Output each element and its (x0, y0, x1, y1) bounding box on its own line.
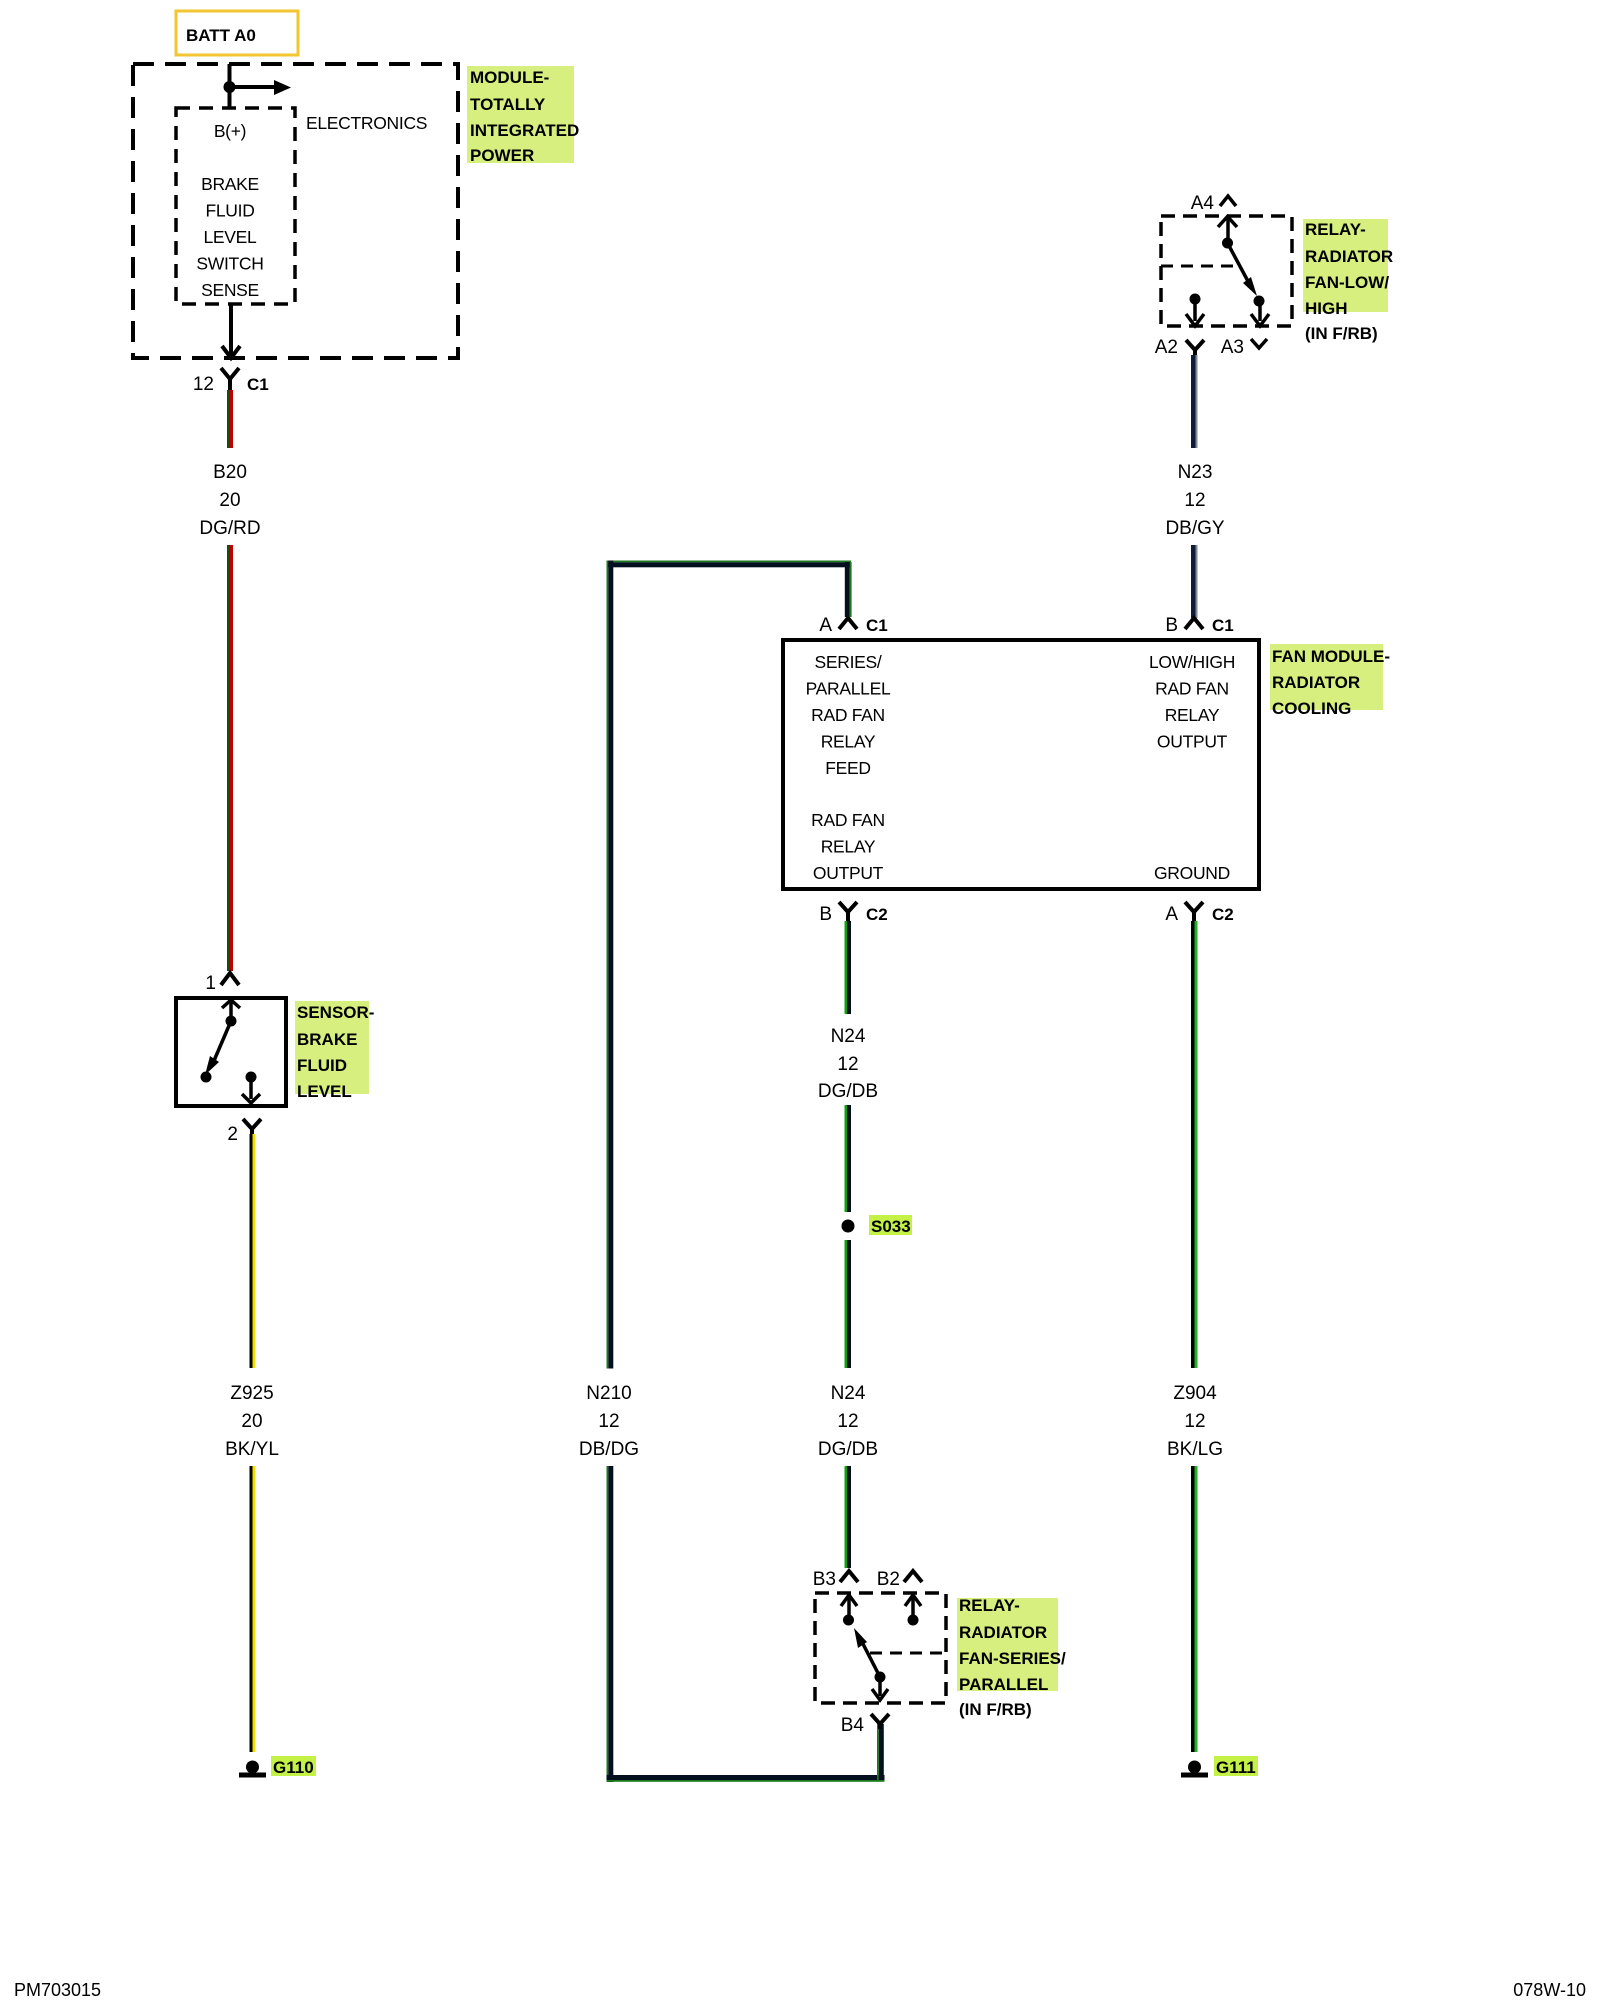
highlight label FAN MODULE-RADIATOR COOLING (1270, 644, 1390, 718)
wire N24 DG/DB segment 4 to relay pin B3 (845, 1466, 852, 1568)
svg-text:12: 12 (837, 1054, 858, 1075)
brake fluid level switch sense: inner dashed sub-box (176, 108, 295, 304)
wire N210 DB/DG stub down to fan module pin A C1 (845, 562, 852, 617)
svg-text:DB/GY: DB/GY (1165, 518, 1224, 539)
svg-text:OUTPUT: OUTPUT (813, 863, 884, 883)
svg-text:SENSE: SENSE (201, 280, 259, 300)
sensor switch: pivot dot (226, 1016, 237, 1027)
fan module right pin text LOW/HIGH RAD FAN RELAY OUTPUT (1149, 652, 1235, 752)
svg-text:BK/LG: BK/LG (1167, 1439, 1223, 1460)
wire label Z925 20 BK/YL (225, 1383, 279, 1460)
svg-text:N24: N24 (831, 1026, 866, 1047)
svg-text:A: A (1165, 904, 1178, 925)
svg-text:A4: A4 (1191, 193, 1215, 214)
svg-text:N210: N210 (586, 1383, 631, 1404)
svg-text:A3: A3 (1221, 337, 1244, 358)
svg-text:B3: B3 (813, 1569, 836, 1590)
wire N210 DB/DG left vertical segment 1 (607, 561, 614, 1369)
wire Z904 BK/LG segment 2 (1191, 1466, 1198, 1752)
wire N24 DG/DB segment 1 from fan module B C2 (845, 921, 852, 1014)
splice S033 dot (842, 1220, 855, 1233)
svg-text:Z925: Z925 (230, 1383, 273, 1404)
battery feed callout box BATT A0 (176, 11, 298, 55)
relay-radiator fan-series/parallel: pin B3 connector (male chevron) (813, 1569, 858, 1590)
svg-text:(IN F/RB): (IN F/RB) (959, 1700, 1032, 1719)
wire Z925 BK/YL segment 1 (250, 1134, 256, 1368)
svg-text:LEVEL: LEVEL (297, 1082, 352, 1101)
wire N24 DG/DB segment 3 (845, 1240, 852, 1368)
svg-text:20: 20 (219, 490, 240, 511)
svg-text:B(+): B(+) (214, 121, 246, 141)
ground label G110 (271, 1756, 316, 1777)
svg-text:N24: N24 (831, 1383, 866, 1404)
svg-text:TOTALLY: TOTALLY (470, 95, 546, 114)
svg-text:DG/DB: DG/DB (818, 1081, 878, 1102)
TIPM output wire with arrow to connector C1 (222, 304, 240, 358)
svg-text:B2: B2 (877, 1569, 900, 1590)
fan module left pin text RAD FAN RELAY OUTPUT (811, 810, 885, 883)
svg-text:C2: C2 (1212, 905, 1234, 924)
svg-text:OUTPUT: OUTPUT (1157, 732, 1228, 752)
svg-text:12: 12 (837, 1411, 858, 1432)
svg-text:LEVEL: LEVEL (204, 227, 258, 247)
highlight label RELAY-RADIATOR FAN-SERIES/PARALLEL (957, 1596, 1066, 1694)
relay common pivot dot (1222, 238, 1233, 249)
sensor switch: right throw contact dot (pin 2 side) (246, 1072, 257, 1083)
arrow to other circuits inside TIPM (230, 80, 292, 95)
wire Z925 BK/YL segment 2 (250, 1466, 256, 1752)
relay-radiator fan-low/high: pin A4 (male chevron) (1191, 193, 1236, 214)
svg-text:A2: A2 (1155, 337, 1178, 358)
relay terminal arrow to A2 (1186, 299, 1204, 326)
svg-text:FAN-SERIES/: FAN-SERIES/ (959, 1649, 1066, 1668)
fan module-radiator cooling box (783, 640, 1259, 889)
svg-text:RADIATOR: RADIATOR (1272, 673, 1360, 692)
svg-text:DG/RD: DG/RD (199, 518, 260, 539)
wire N210 stub up to relay pin B4 (877, 1724, 884, 1780)
wire label N210 12 DB/DG (579, 1383, 639, 1460)
svg-text:FEED: FEED (825, 758, 870, 778)
svg-text:RELAY-: RELAY- (959, 1596, 1020, 1615)
upper wire label N24 12 DG/DB (818, 1026, 878, 1102)
svg-text:GROUND: GROUND (1154, 863, 1230, 883)
svg-text:C2: C2 (866, 905, 888, 924)
pin A2 connector (female Y) (1155, 337, 1204, 358)
svg-text:BRAKE: BRAKE (297, 1030, 357, 1049)
highlight label RELAY-RADIATOR FAN-LOW/HIGH (1303, 219, 1393, 318)
wire label N23 12 DB/GY (1165, 462, 1224, 539)
wire N23 DB/GY segment 1 (1191, 355, 1198, 448)
relay common pivot dot (B3 side) (843, 1615, 854, 1626)
relay-radiator fan-low/high dashed box (1161, 216, 1292, 326)
svg-text:B4: B4 (841, 1715, 865, 1736)
svg-text:COOLING: COOLING (1272, 699, 1351, 718)
wire N23 DB/GY segment 2 (1191, 545, 1198, 618)
svg-text:SWITCH: SWITCH (196, 254, 263, 274)
relay terminal dot A2 (1190, 294, 1201, 305)
connector C1 pin 12 (female Y) (193, 368, 269, 395)
wire label Z904 12 BK/LG (1167, 1383, 1223, 1460)
fan module left pin text SERIES/PARALLEL RAD FAN RELAY FEED (806, 652, 891, 778)
module-totally integrated power: outer dashed box (133, 64, 458, 358)
highlight label SENSOR-BRAKE FLUID LEVEL (295, 1001, 374, 1101)
svg-text:FAN-LOW/: FAN-LOW/ (1305, 273, 1389, 292)
svg-text:LOW/HIGH: LOW/HIGH (1149, 652, 1235, 672)
svg-text:Z904: Z904 (1173, 1383, 1217, 1404)
relay terminal arrow from B3 (841, 1595, 857, 1620)
svg-text:N23: N23 (1178, 462, 1213, 483)
svg-text:FAN MODULE-: FAN MODULE- (1272, 647, 1390, 666)
connector pin 2 (female Y) (227, 1119, 261, 1145)
svg-text:PM703015: PM703015 (14, 1980, 101, 2000)
svg-text:RELAY: RELAY (821, 837, 876, 857)
wire B20 DG/RD segment 2 (227, 545, 233, 971)
svg-text:B: B (819, 904, 832, 925)
wire N210 DB/DG left vertical segment 2 (607, 1466, 614, 1782)
svg-text:POWER: POWER (470, 146, 534, 165)
splice label S033 (869, 1215, 912, 1236)
pin A3 connector (male chevron down) (1221, 337, 1267, 358)
sensor switch: movable arm with arrowhead (205, 1021, 231, 1075)
wire B20 DG/RD segment 1 (227, 390, 233, 448)
svg-text:RAD FAN: RAD FAN (811, 705, 885, 725)
wire Z904 BK/LG segment 1 from fan module A C2 (1191, 921, 1198, 1368)
svg-text:RADIATOR: RADIATOR (959, 1623, 1047, 1642)
connector C1 pin A (male) at fan module (819, 615, 887, 636)
svg-text:S033: S033 (871, 1217, 911, 1236)
svg-text:2: 2 (227, 1124, 238, 1145)
svg-text:FLUID: FLUID (297, 1056, 347, 1075)
ground G110 symbol (239, 1761, 266, 1778)
svg-text:B: B (1165, 615, 1178, 636)
svg-text:20: 20 (241, 1411, 262, 1432)
svg-text:SENSOR-: SENSOR- (297, 1003, 374, 1022)
svg-text:RELAY: RELAY (821, 732, 876, 752)
svg-text:DG/DB: DG/DB (818, 1439, 878, 1460)
relay terminal arrow to B4 (872, 1677, 888, 1700)
svg-text:G111: G111 (1216, 1758, 1256, 1777)
svg-text:BK/YL: BK/YL (225, 1439, 279, 1460)
relay movable contact arm with arrowhead (1228, 243, 1258, 296)
svg-text:C1: C1 (866, 616, 888, 635)
svg-text:PARALLEL: PARALLEL (806, 679, 891, 699)
svg-text:BRAKE: BRAKE (201, 174, 259, 194)
ground G111 symbol (1181, 1761, 1208, 1778)
svg-text:12: 12 (598, 1411, 619, 1432)
lower wire label N24 12 DG/DB (818, 1383, 878, 1460)
svg-text:INTEGRATED: INTEGRATED (470, 121, 579, 140)
svg-text:RADIATOR: RADIATOR (1305, 247, 1393, 266)
ground label G111 (1214, 1756, 1258, 1777)
svg-text:MODULE-: MODULE- (470, 68, 549, 87)
svg-text:A: A (819, 615, 832, 636)
wire N210 DB/DG bottom horizontal segment to relay pin B4 (607, 1775, 885, 1782)
relay coil terminal arrow to A4 (1218, 217, 1237, 243)
sensor-brake fluid level box (176, 998, 286, 1106)
svg-text:FLUID: FLUID (205, 201, 254, 221)
pin B2 connector (male chevron) (877, 1569, 922, 1590)
relay terminal arrow from B2 (905, 1595, 921, 1620)
svg-text:12: 12 (1184, 1411, 1205, 1432)
svg-text:RAD FAN: RAD FAN (1155, 679, 1229, 699)
wire N24 DG/DB segment 2 (845, 1105, 852, 1212)
svg-text:078W-10: 078W-10 (1513, 1980, 1586, 2000)
relay-radiator fan-series/parallel dashed box (815, 1593, 946, 1703)
connector pin 1 (male chevron) of brake fluid level sensor (205, 973, 239, 994)
label BRAKE FLUID LEVEL SWITCH SENSE (196, 174, 263, 300)
svg-text:B20: B20 (213, 462, 247, 483)
svg-text:RELAY-: RELAY- (1305, 220, 1366, 239)
junction dot on B(+) feed (224, 81, 236, 93)
svg-text:DB/DG: DB/DG (579, 1439, 639, 1460)
relay throw contact dot (A3 side) (1254, 296, 1265, 307)
relay pivot dot (B4 side) (875, 1672, 886, 1683)
svg-text:1: 1 (205, 973, 216, 994)
svg-text:HIGH: HIGH (1305, 299, 1348, 318)
svg-text:BATT A0: BATT A0 (186, 26, 256, 45)
wire N210 DB/DG top horizontal segment (607, 561, 851, 568)
svg-text:(IN F/RB): (IN F/RB) (1305, 324, 1378, 343)
svg-text:RAD FAN: RAD FAN (811, 810, 885, 830)
wire label B20 20 DG/RD (199, 462, 260, 539)
connector C2 pin B (female Y) at fan module (819, 902, 887, 925)
svg-text:G110: G110 (273, 1758, 314, 1777)
svg-text:RELAY: RELAY (1165, 705, 1220, 725)
svg-text:SERIES/: SERIES/ (815, 652, 882, 672)
sensor switch: common terminal arrow (pin 1 side) (222, 1000, 240, 1021)
highlight label MODULE-TOTALLY INTEGRATED POWER (467, 66, 579, 165)
TIPM internal B(+) feed wire from BATT A0 (228, 64, 232, 108)
svg-text:C1: C1 (247, 375, 269, 394)
relay terminal dot (B2 side) (908, 1615, 919, 1626)
svg-text:ELECTRONICS: ELECTRONICS (306, 113, 427, 133)
relay terminal arrow to A3 (1251, 301, 1269, 326)
svg-text:12: 12 (1184, 490, 1205, 511)
svg-text:PARALLEL: PARALLEL (959, 1675, 1048, 1694)
pin B4 connector (female Y) (841, 1714, 889, 1736)
connector C2 pin A (female Y) at fan module (1165, 902, 1233, 925)
relay movable contact arm with arrowhead (points up toward B3) (854, 1628, 880, 1677)
svg-text:C1: C1 (1212, 616, 1234, 635)
svg-text:12: 12 (193, 374, 214, 395)
sensor switch: pin 2 terminal arrow (242, 1077, 260, 1103)
sensor switch: left throw contact dot (201, 1072, 212, 1083)
connector C1 pin B (male) at fan module (1165, 615, 1233, 636)
